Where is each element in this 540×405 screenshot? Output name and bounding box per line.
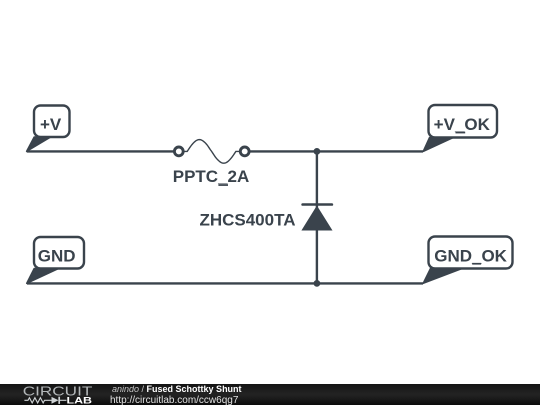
- wire: fuse right terminal to +V_OK flag: [249, 150, 423, 152]
- svg-text:ZHCS400TA: ZHCS400TA: [199, 211, 295, 230]
- node flag GND_OK: [423, 237, 512, 284]
- footer text: [112, 384, 242, 405]
- CircuitLab footer bar: [0, 384, 540, 405]
- svg-text:PPTC_2A: PPTC_2A: [173, 167, 250, 186]
- wire: +V flag to fuse left terminal: [27, 150, 174, 152]
- junction: bottom node: [314, 280, 321, 287]
- svg-text:LAB: LAB: [67, 396, 93, 405]
- svg-text:+V: +V: [40, 115, 62, 134]
- wire: GND flag to GND_OK flag (bottom rail): [27, 282, 423, 284]
- diode ZHCS400TA (schottky shunt): [302, 205, 332, 231]
- node flag +V_OK: [423, 105, 497, 151]
- wire: vertical shunt branch: [316, 151, 318, 283]
- svg-text:+V_OK: +V_OK: [434, 115, 491, 134]
- fuse PPTC_2A: [174, 140, 249, 164]
- junction: top node: [314, 148, 321, 155]
- CircuitLab logo: [22, 384, 97, 405]
- svg-text:GND: GND: [38, 246, 76, 265]
- node flag +V: [27, 106, 70, 152]
- svg-text:GND_OK: GND_OK: [434, 246, 507, 265]
- node flag GND: [27, 237, 84, 283]
